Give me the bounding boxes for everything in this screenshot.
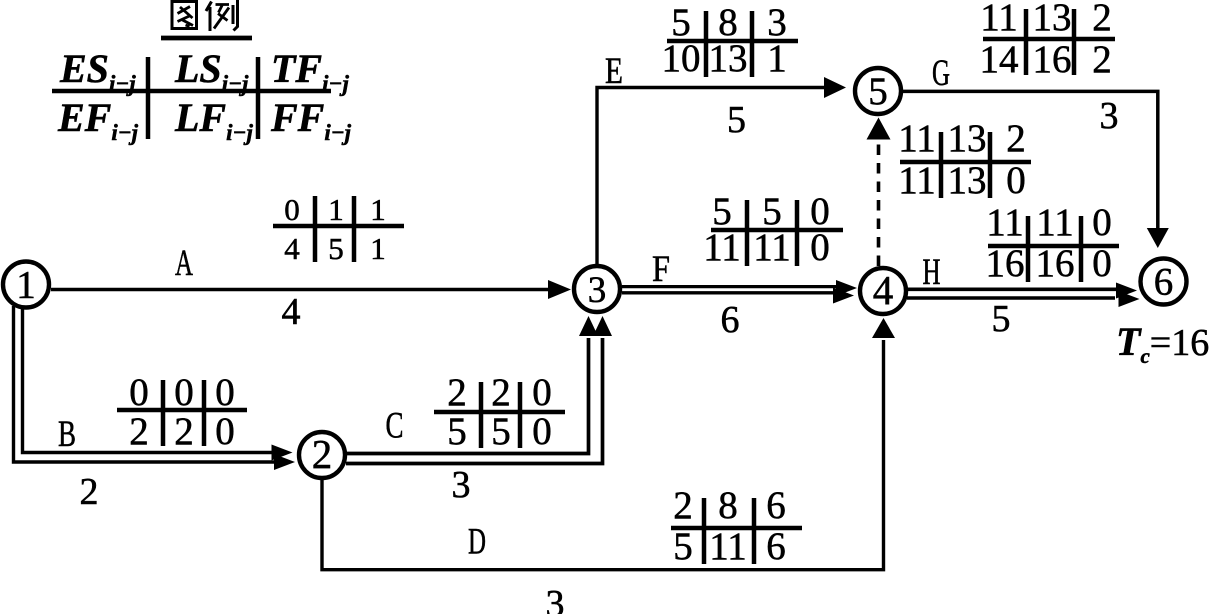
svg-text:5: 5 (447, 410, 467, 453)
svg-text:2: 2 (129, 410, 149, 453)
svg-text:0: 0 (174, 371, 194, 414)
svg-text:H: H (923, 252, 941, 293)
svg-text:5: 5 (992, 298, 1011, 340)
svg-text:11: 11 (1036, 201, 1074, 244)
svg-text:1: 1 (370, 231, 386, 266)
svg-text:0: 0 (532, 410, 552, 453)
svg-text:0: 0 (284, 192, 300, 227)
svg-text:0: 0 (1006, 159, 1026, 202)
svg-text:13: 13 (948, 117, 987, 160)
svg-text:2: 2 (1092, 38, 1112, 81)
svg-text:10: 10 (662, 37, 701, 80)
svg-text:3: 3 (588, 270, 607, 311)
svg-text:14: 14 (980, 38, 1019, 81)
svg-text:D: D (468, 522, 486, 563)
svg-text:1: 1 (767, 37, 787, 80)
svg-text:2: 2 (80, 471, 99, 513)
svg-text:0: 0 (129, 371, 149, 414)
svg-text:3: 3 (546, 583, 565, 614)
svg-text:0: 0 (215, 371, 235, 414)
svg-text:16: 16 (1033, 38, 1072, 81)
svg-text:1: 1 (370, 192, 386, 227)
svg-text:A: A (175, 243, 193, 284)
svg-text:11: 11 (980, 0, 1018, 39)
svg-text:C: C (386, 406, 404, 447)
svg-text:0: 0 (810, 226, 830, 269)
svg-text:8: 8 (718, 484, 738, 527)
svg-text:2: 2 (1006, 117, 1026, 160)
svg-text:13: 13 (709, 37, 748, 80)
svg-text:13: 13 (948, 159, 987, 202)
svg-text:5: 5 (868, 70, 888, 113)
svg-text:0: 0 (1092, 242, 1112, 285)
svg-text:6: 6 (721, 299, 740, 341)
svg-text:11: 11 (753, 226, 791, 269)
svg-text:2: 2 (673, 484, 693, 527)
svg-text:0: 0 (532, 371, 552, 414)
svg-text:0: 0 (1092, 201, 1112, 244)
svg-text:B: B (58, 414, 76, 455)
svg-text:5: 5 (673, 525, 693, 568)
svg-text:3: 3 (452, 464, 471, 506)
svg-text:5: 5 (727, 99, 746, 141)
svg-text:6: 6 (766, 525, 786, 568)
svg-text:6: 6 (1154, 261, 1174, 304)
svg-text:1: 1 (16, 264, 36, 307)
svg-text:11: 11 (703, 226, 741, 269)
svg-text:11: 11 (986, 201, 1024, 244)
svg-text:F: F (652, 249, 670, 290)
svg-text:2: 2 (312, 431, 333, 477)
svg-text:1: 1 (328, 192, 344, 227)
svg-text:11: 11 (898, 117, 936, 160)
svg-text:13: 13 (1033, 0, 1072, 39)
svg-text:2: 2 (174, 410, 194, 453)
svg-text:E: E (605, 51, 623, 92)
svg-text:5: 5 (328, 231, 344, 266)
svg-text:3: 3 (1100, 95, 1119, 137)
svg-text:0: 0 (215, 410, 235, 453)
svg-text:4: 4 (284, 231, 300, 266)
svg-text:11: 11 (898, 159, 936, 202)
svg-text:6: 6 (766, 484, 786, 527)
svg-text:2: 2 (1092, 0, 1112, 39)
svg-text:11: 11 (709, 525, 747, 568)
svg-text:16: 16 (1036, 242, 1075, 285)
svg-text:5: 5 (491, 410, 511, 453)
svg-text:4: 4 (282, 291, 301, 333)
svg-text:Tc=16: Tc=16 (1116, 319, 1209, 368)
svg-text:16: 16 (986, 242, 1025, 285)
svg-text:4: 4 (873, 267, 894, 313)
svg-text:G: G (932, 53, 950, 94)
svg-text:2: 2 (491, 371, 511, 414)
svg-text:2: 2 (447, 371, 467, 414)
